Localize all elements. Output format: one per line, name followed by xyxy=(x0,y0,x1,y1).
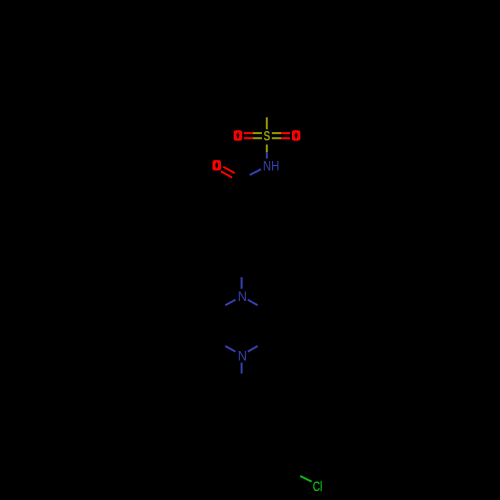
svg-text:S: S xyxy=(264,128,271,144)
svg-text:Cl: Cl xyxy=(313,478,323,494)
svg-text:N: N xyxy=(238,288,247,304)
svg-text:N: N xyxy=(238,347,247,363)
svg-text:NH: NH xyxy=(263,157,280,173)
